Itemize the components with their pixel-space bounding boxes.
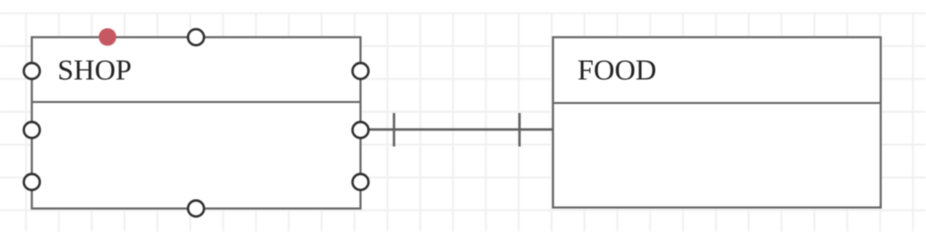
svg-text:SHOP: SHOP — [58, 55, 132, 87]
svg-text:FOOD: FOOD — [578, 55, 657, 87]
